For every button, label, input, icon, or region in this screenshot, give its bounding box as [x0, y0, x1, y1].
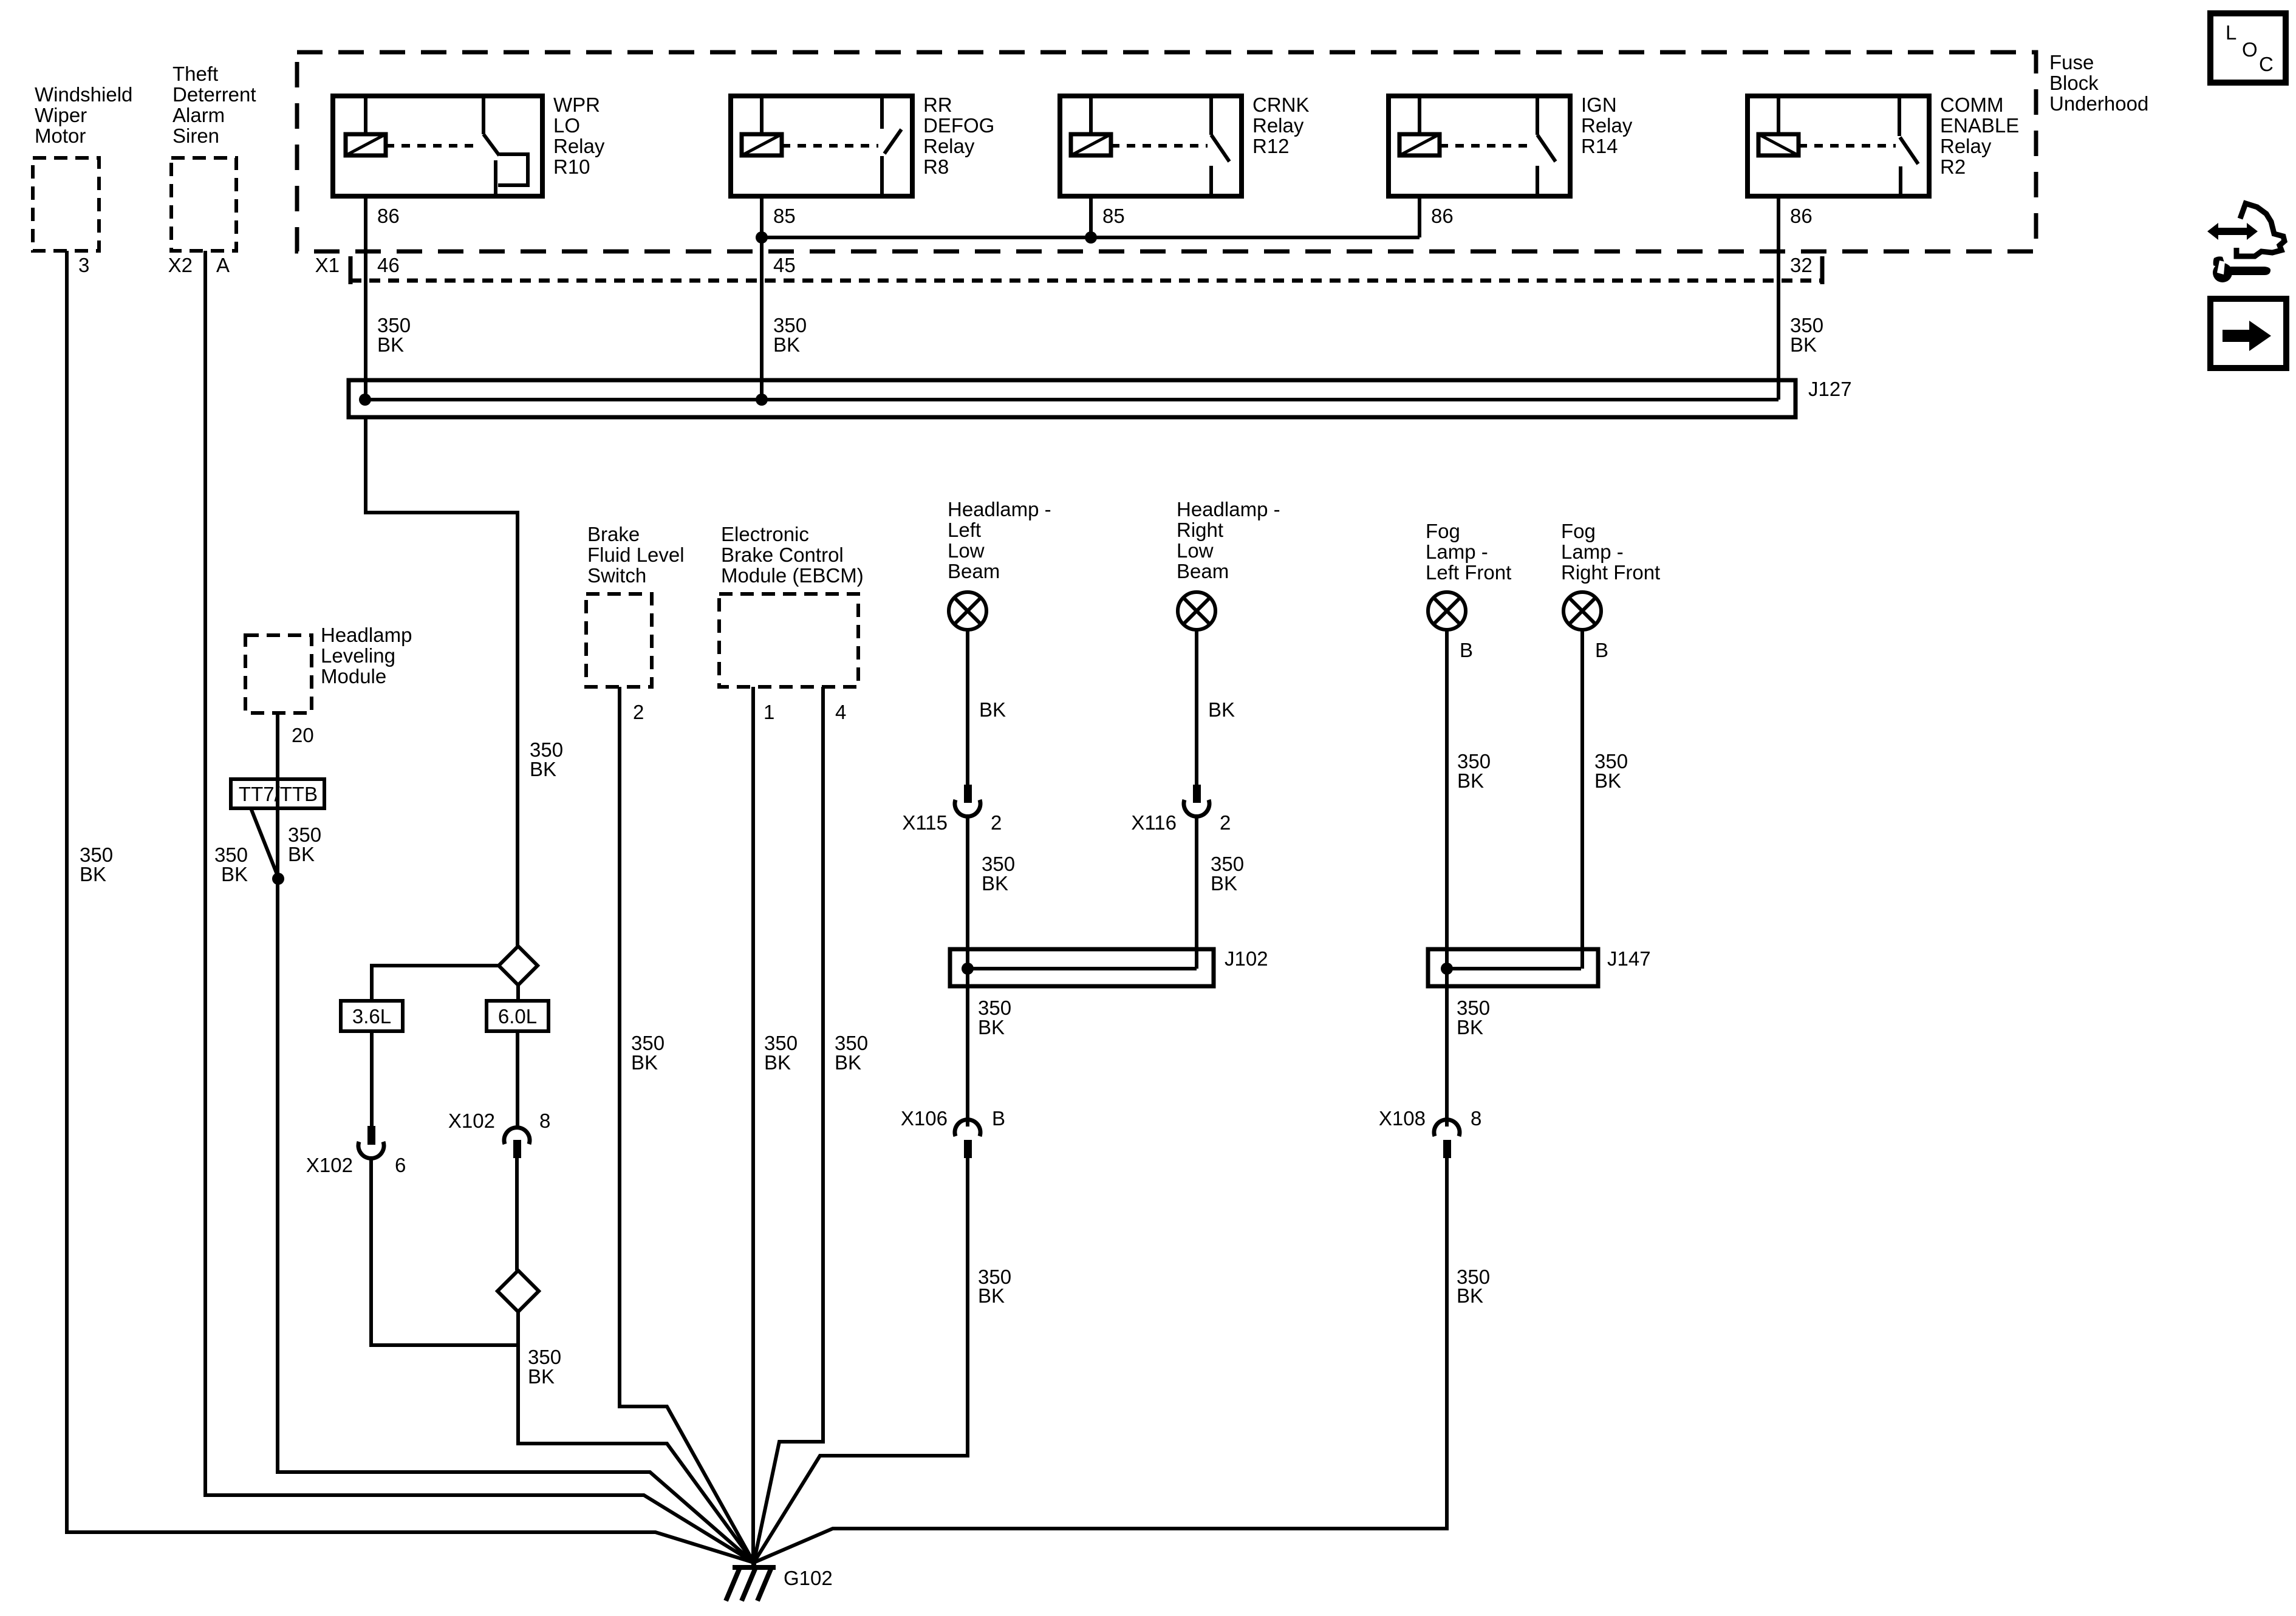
svg-text:Fluid Level: Fluid Level — [587, 544, 685, 566]
svg-text:Left: Left — [948, 519, 981, 541]
svg-text:BK: BK — [377, 333, 404, 356]
svg-text:CRNK: CRNK — [1252, 94, 1310, 116]
wire J102 to X106 — [966, 969, 969, 1127]
svg-text:Low: Low — [948, 539, 985, 562]
svg-text:3.6L: 3.6L — [352, 1005, 391, 1028]
svg-text:85: 85 — [1102, 205, 1125, 227]
svg-text:J127: J127 — [1808, 378, 1852, 400]
ground G102 — [726, 1563, 833, 1601]
theft deterrent alarm siren (dashed box) — [168, 63, 256, 276]
connector X102 pin 8 — [448, 1110, 550, 1158]
svg-text:2: 2 — [633, 701, 644, 723]
junction at R12 pin85 — [1085, 231, 1097, 244]
svg-text:WPR: WPR — [553, 94, 600, 116]
wire windshield wiper motor to ground run — [67, 251, 754, 1563]
svg-text:R12: R12 — [1252, 135, 1290, 157]
svg-text:46: 46 — [377, 254, 400, 276]
tag TT7/TTB — [231, 779, 324, 808]
svg-text:X108: X108 — [1379, 1107, 1426, 1130]
junction J127 left — [359, 394, 371, 406]
svg-text:BK: BK — [80, 863, 106, 885]
svg-text:4: 4 — [835, 701, 846, 723]
tag 6.0L — [487, 1001, 548, 1031]
svg-text:Siren: Siren — [173, 124, 219, 147]
svg-text:8: 8 — [539, 1110, 550, 1132]
label 350 BK (R8 wire) — [773, 314, 807, 356]
svg-text:X1: X1 — [315, 254, 340, 276]
svg-text:BK: BK — [773, 333, 800, 356]
relay R2 COMM ENABLE — [1748, 94, 2019, 196]
svg-text:Headlamp -: Headlamp - — [948, 498, 1051, 520]
icon car with double arrow and wrench — [2207, 203, 2284, 282]
svg-text:Fog: Fog — [1561, 520, 1596, 542]
relay R10 WPR LO — [333, 94, 605, 196]
wire X116 to J102 — [1195, 818, 1198, 969]
wire diamond to 6.0L tag — [516, 985, 520, 1001]
svg-text:Beam: Beam — [1177, 560, 1229, 582]
wire fog right to J147 — [1580, 630, 1584, 969]
wire R10 pin86 to J127 — [364, 196, 367, 400]
junction below TT7/TTB — [272, 873, 284, 885]
connector X102 pin 6 — [306, 1126, 406, 1176]
label 350 BK (below diamond) — [528, 1346, 561, 1388]
connector X108 pin 8 — [1379, 1107, 1481, 1158]
icon LOC box — [2210, 13, 2286, 83]
wire headlamp left to X115 — [966, 630, 969, 785]
svg-text:Brake Control: Brake Control — [721, 544, 844, 566]
svg-text:Beam: Beam — [948, 560, 1000, 582]
svg-text:BK: BK — [288, 843, 315, 865]
svg-text:BK: BK — [982, 872, 1008, 895]
label 350 BK (R2 wire) — [1790, 314, 1823, 356]
wire joining 85/85/86 pins — [762, 236, 1420, 239]
svg-text:R8: R8 — [923, 155, 949, 178]
wire X115 to J102 — [966, 818, 969, 969]
relay R12 CRNK — [1060, 94, 1310, 196]
svg-text:B: B — [1595, 639, 1608, 661]
svg-text:Lamp -: Lamp - — [1561, 540, 1624, 563]
electronic brake control module EBCM (dashed box) — [719, 523, 864, 723]
svg-text:Fuse: Fuse — [2049, 51, 2094, 73]
svg-text:A: A — [216, 254, 230, 276]
junction J127 at R8 wire — [756, 394, 768, 406]
fuse block underhood (dashed boundary) — [297, 51, 2148, 251]
label 350 BK (theft wire) — [214, 844, 248, 885]
wire X106 to ground run — [754, 1158, 968, 1563]
svg-text:Module: Module — [321, 665, 386, 687]
svg-text:BK: BK — [1790, 333, 1817, 356]
splice pack J147 — [1428, 947, 1651, 986]
fog lamp left front lamp — [1426, 520, 1511, 661]
wire diamond to 3.6L branch — [372, 966, 499, 1001]
label 350 BK (below X108) — [1457, 1266, 1490, 1307]
wire TTB branch diagonal — [251, 808, 279, 879]
connector row X1 (dashed line with end ticks) — [315, 254, 1822, 284]
wire R14 pin86 — [1418, 196, 1421, 237]
svg-text:1: 1 — [764, 701, 774, 723]
tag 3.6L — [341, 1001, 403, 1031]
svg-text:Alarm: Alarm — [173, 104, 225, 126]
svg-text:Deterrent: Deterrent — [173, 83, 256, 106]
svg-text:BK: BK — [1211, 872, 1237, 895]
svg-text:Right Front: Right Front — [1561, 561, 1660, 584]
svg-text:B: B — [1460, 639, 1473, 661]
svg-text:BK: BK — [978, 1284, 1005, 1307]
svg-text:X106: X106 — [901, 1107, 948, 1130]
svg-text:Electronic: Electronic — [721, 523, 809, 545]
svg-text:Relay: Relay — [1252, 114, 1304, 137]
junction J102 — [962, 963, 974, 975]
svg-text:Module (EBCM): Module (EBCM) — [721, 564, 864, 587]
svg-text:B: B — [992, 1107, 1005, 1130]
svg-text:Switch: Switch — [587, 564, 646, 587]
option diamond lower — [497, 1270, 539, 1312]
svg-text:IGN: IGN — [1581, 94, 1617, 116]
svg-text:Underhood: Underhood — [2049, 92, 2148, 115]
wire X102-8 to diamond lower — [515, 1158, 519, 1270]
svg-text:LO: LO — [553, 114, 580, 137]
svg-text:86: 86 — [1790, 205, 1813, 227]
svg-text:BK: BK — [978, 1016, 1005, 1038]
svg-text:R2: R2 — [1940, 155, 1966, 178]
wire fog left to J147 — [1445, 630, 1449, 969]
wire 3.6L tag to connector — [370, 1031, 374, 1127]
svg-text:Right: Right — [1177, 519, 1223, 541]
svg-text:BK: BK — [835, 1051, 861, 1074]
svg-text:X115: X115 — [902, 811, 948, 834]
wire EBCM pin1 straight to ground — [751, 687, 755, 1563]
svg-text:Windshield: Windshield — [35, 83, 132, 106]
wire R8 pin85 to J127 — [760, 196, 764, 400]
windshield wiper motor (dashed box) — [33, 83, 132, 276]
svg-text:BK: BK — [764, 1051, 791, 1074]
svg-text:6.0L: 6.0L — [498, 1005, 537, 1028]
wire TT7 to ground run — [278, 879, 754, 1563]
junction at R8 pin85 — [756, 231, 768, 244]
svg-text:X116: X116 — [1131, 811, 1177, 834]
svg-text:6: 6 — [395, 1154, 406, 1176]
svg-text:BK: BK — [1594, 769, 1621, 792]
svg-text:Lamp -: Lamp - — [1426, 540, 1488, 563]
wire theft siren to ground run — [205, 251, 754, 1563]
svg-text:TT7/TTB: TT7/TTB — [239, 783, 318, 805]
svg-text:C: C — [2259, 53, 2274, 75]
wire J127 down and over to diamond — [366, 417, 518, 946]
wire 6.0L tag to connector — [516, 1031, 519, 1126]
svg-text:BK: BK — [221, 863, 248, 885]
svg-text:BK: BK — [1457, 769, 1484, 792]
svg-text:2: 2 — [1220, 811, 1231, 834]
svg-text:Headlamp -: Headlamp - — [1177, 498, 1280, 520]
label 350 BK (below X116) — [1211, 853, 1244, 895]
svg-text:J102: J102 — [1225, 947, 1268, 970]
wire HLM pin 20 down through TT7/TTB — [276, 713, 279, 879]
label 350 BK (wiper wire) — [80, 844, 113, 885]
wire R2 pin86 to J127 — [1777, 196, 1780, 400]
svg-text:Relay: Relay — [923, 135, 975, 157]
splice pack J102 — [950, 947, 1268, 986]
label 350 BK (below X106) — [978, 1266, 1011, 1307]
svg-text:20: 20 — [292, 724, 314, 746]
fog lamp right front lamp — [1561, 520, 1660, 661]
wire headlamp right to X116 — [1195, 630, 1198, 785]
svg-text:86: 86 — [377, 205, 400, 227]
svg-text:45: 45 — [773, 254, 796, 276]
svg-text:8: 8 — [1471, 1107, 1481, 1130]
svg-text:O: O — [2242, 38, 2258, 61]
svg-text:Fog: Fog — [1426, 520, 1460, 542]
svg-text:3: 3 — [78, 254, 89, 276]
svg-text:X102: X102 — [306, 1154, 353, 1176]
brake fluid level switch (dashed box) — [586, 523, 685, 723]
svg-text:RR: RR — [923, 94, 952, 116]
label 350 BK (below J147) — [1457, 997, 1490, 1038]
svg-text:Wiper: Wiper — [35, 104, 87, 126]
label 350 BK (below X115) — [982, 853, 1015, 895]
svg-text:X2: X2 — [168, 254, 193, 276]
option diamond upper — [499, 946, 538, 985]
icon arrow box — [2210, 299, 2286, 368]
label 350 BK (TT7 wire) — [288, 823, 321, 865]
svg-text:R10: R10 — [553, 155, 590, 178]
wire diamond lower to ground run — [518, 1312, 754, 1563]
svg-text:32: 32 — [1790, 254, 1813, 276]
svg-text:X102: X102 — [448, 1110, 495, 1132]
svg-text:Leveling: Leveling — [321, 644, 395, 667]
svg-text:Headlamp: Headlamp — [321, 624, 412, 646]
label 350 BK (below J102) — [978, 997, 1011, 1038]
svg-text:Theft: Theft — [173, 63, 218, 85]
svg-text:86: 86 — [1431, 205, 1454, 227]
svg-text:R14: R14 — [1581, 135, 1618, 157]
wire X102-6 to lower junction — [371, 1159, 518, 1345]
relay R14 IGN — [1389, 94, 1633, 196]
wire BFLS pin2 to ground run — [620, 687, 754, 1563]
svg-text:BK: BK — [530, 758, 556, 780]
headlamp leveling module (dashed box) — [245, 624, 412, 746]
svg-text:DEFOG: DEFOG — [923, 114, 994, 137]
svg-text:BK: BK — [1457, 1016, 1483, 1038]
svg-text:Motor: Motor — [35, 124, 86, 147]
label 350 BK (R10 wire) — [377, 314, 411, 356]
wire R12 pin85 — [1089, 196, 1093, 237]
svg-text:Block: Block — [2049, 72, 2099, 94]
svg-text:85: 85 — [773, 205, 796, 227]
wire X108 to ground run — [754, 1158, 1447, 1563]
svg-text:Relay: Relay — [1940, 135, 1992, 157]
svg-text:BK: BK — [528, 1365, 555, 1388]
label 350 BK (fog left) — [1457, 750, 1491, 792]
svg-text:Relay: Relay — [553, 135, 605, 157]
connector X115 pin 2 — [902, 785, 1002, 834]
label 350 BK (fog right) — [1594, 750, 1628, 792]
svg-text:BK: BK — [631, 1051, 658, 1074]
connector X116 pin 2 — [1131, 785, 1231, 834]
svg-text:BK: BK — [1457, 1284, 1483, 1307]
relay R8 RR DEFOG — [731, 94, 994, 196]
svg-text:BK: BK — [1208, 698, 1235, 721]
label 350 BK (EBCM pin1 wire) — [764, 1032, 798, 1074]
splice pack J127 — [349, 378, 1852, 417]
svg-text:Low: Low — [1177, 539, 1214, 562]
svg-text:Relay: Relay — [1581, 114, 1633, 137]
svg-text:J147: J147 — [1607, 947, 1651, 970]
svg-text:2: 2 — [991, 811, 1002, 834]
svg-text:L: L — [2226, 21, 2236, 44]
label 350 BK (BFLS wire) — [631, 1032, 665, 1074]
svg-text:G102: G102 — [784, 1567, 833, 1589]
label 350 BK (EBCM pin4 wire) — [835, 1032, 868, 1074]
svg-text:Left Front: Left Front — [1426, 561, 1511, 584]
svg-text:ENABLE: ENABLE — [1940, 114, 2019, 137]
headlamp left low beam lamp — [948, 498, 1051, 630]
svg-text:Brake: Brake — [587, 523, 640, 545]
svg-text:COMM: COMM — [1940, 94, 2003, 116]
connector X106 pin B — [901, 1107, 1005, 1158]
label 350 BK (above diamond) — [530, 738, 563, 780]
junction J147 — [1441, 963, 1453, 975]
svg-text:BK: BK — [979, 698, 1006, 721]
headlamp right low beam lamp — [1177, 498, 1280, 630]
wire EBCM pin4 to ground run — [754, 687, 823, 1563]
wire J147 to X108 — [1445, 969, 1449, 1127]
